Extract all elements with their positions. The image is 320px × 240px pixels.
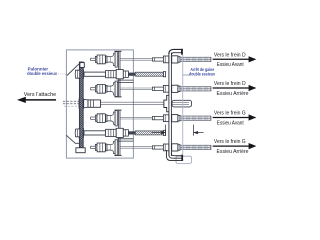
svg-text:Vers le frein G: Vers le frein G — [214, 139, 246, 145]
svg-text:Vers le frein D: Vers le frein D — [214, 81, 246, 87]
svg-text:double essieux: double essieux — [189, 71, 215, 76]
svg-text:Vers le frein G: Vers le frein G — [214, 111, 246, 117]
svg-text:Essieu Avant: Essieu Avant — [217, 62, 244, 68]
svg-text:Essieu Arrière: Essieu Arrière — [217, 149, 249, 155]
svg-text:Vers l’attache: Vers l’attache — [24, 92, 56, 98]
svg-text:double essieux: double essieux — [27, 71, 57, 76]
svg-text:Vers le frein D: Vers le frein D — [214, 52, 246, 58]
svg-text:Essieu Avant: Essieu Avant — [217, 120, 244, 126]
svg-text:Essieu Arrière: Essieu Arrière — [217, 91, 249, 97]
